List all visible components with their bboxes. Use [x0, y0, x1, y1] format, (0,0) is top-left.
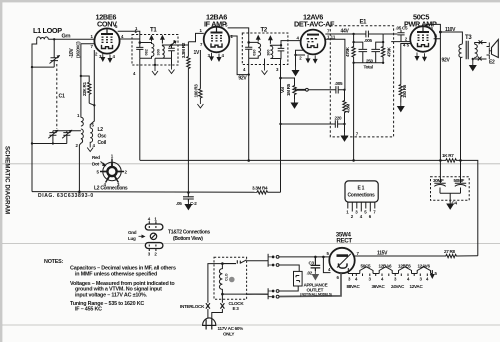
heater pin 3 12AV6	[306, 55, 310, 63]
svg-text:ONLY: ONLY	[223, 332, 234, 337]
svg-text:SCHEMATIC DIAGRAM: SCHEMATIC DIAGRAM	[4, 146, 11, 214]
node AVC at C2	[187, 191, 190, 194]
label E1	[360, 20, 368, 26]
pin 4p 50C5	[435, 34, 438, 39]
label T2 secondary value	[266, 49, 270, 55]
pin 5 12BA6	[225, 23, 228, 28]
node T2 primary top	[247, 41, 250, 44]
svg-text:E2: E2	[489, 60, 495, 66]
resistor 4.8M	[343, 90, 346, 124]
label 1K R7	[442, 153, 454, 158]
pin 2 12BE6	[95, 52, 98, 57]
pin 4s 12BE6	[121, 34, 124, 39]
label appliance outlet	[300, 282, 332, 296]
label 27 R8	[444, 249, 456, 254]
heater pin 3 50C5	[415, 53, 419, 61]
resistor R1 22K	[81, 76, 91, 103]
connector L2 bottom view	[100, 159, 124, 183]
node L2 bottom on bus	[78, 191, 81, 194]
connector T1T2 bottom shell	[145, 243, 163, 252]
inductor T1 secondary	[155, 45, 172, 58]
label C4	[452, 201, 458, 206]
pin 4 12AV6	[297, 36, 300, 41]
label 1M R5	[286, 83, 291, 96]
svg-text:92V: 92V	[238, 75, 247, 81]
slug arrow T1 secondary	[161, 36, 164, 44]
wire line cord left	[208, 264, 223, 319]
connector T1T2 bottom pin labels	[148, 252, 158, 257]
capacitor C4a 30MF	[433, 160, 446, 193]
pin 7 50C5	[431, 27, 434, 32]
resistor R6 150	[399, 85, 402, 103]
svg-text:470K: 470K	[345, 46, 350, 57]
wire T2 secondary to 12AV6 diode	[281, 41, 301, 46]
connector T1T2 top pin labels	[148, 217, 158, 222]
wire T2 pin to B+ bus	[248, 58, 250, 160]
connector L2 pin numbers	[97, 154, 128, 188]
pin 2 12BA6	[231, 34, 234, 39]
heater jumper 12BE6	[399, 267, 412, 274]
node AVC 220 tap	[279, 123, 281, 125]
svg-text:( NOT IN ALL MODELS): ( NOT IN ALL MODELS)	[300, 293, 332, 297]
gnd lug arrow	[139, 235, 146, 239]
connector T1T2 top shell	[145, 221, 163, 230]
pin 4 L2	[93, 143, 96, 148]
node AF grid	[343, 89, 345, 91]
faint crease line upper	[2, 163, 500, 165]
label .05 C-2	[176, 201, 197, 206]
svg-text:T1&T2 Connections: T1&T2 Connections	[168, 230, 210, 236]
heater chain end arrow	[431, 270, 435, 278]
label Gnd Lug	[128, 230, 137, 241]
node T3 secondary ground	[472, 58, 474, 60]
wire 44V to 50C5 grid	[383, 33, 397, 35]
wire AVC bus	[32, 191, 256, 194]
label L2 Connections	[94, 186, 128, 192]
label Vol	[280, 87, 285, 93]
pin 1 12AV6	[327, 35, 336, 40]
label L2 Osc Coil	[98, 127, 107, 146]
transformer T2 label	[261, 28, 268, 34]
ground L2 feedback	[87, 143, 93, 152]
slug arrow T2 secondary	[269, 36, 272, 44]
capacitor T1 primary padder	[136, 47, 143, 58]
wire loop top to grid	[48, 38, 95, 40]
connector E1 plug body	[345, 181, 378, 202]
heater chain labels top	[361, 263, 431, 268]
label 4.8M	[346, 104, 351, 113]
pin 2 50C5	[405, 37, 408, 42]
heater pin 4 12BE6	[108, 55, 112, 63]
pin 2 L2	[76, 143, 79, 148]
pin 1 T1	[135, 29, 138, 34]
faint crease line middle	[2, 243, 500, 245]
svg-text:E 1: E 1	[358, 186, 365, 192]
label .005 coupling	[335, 81, 343, 86]
transformer T1 shield box	[132, 35, 178, 66]
wire T1 secondary to 12BA6 grid	[172, 33, 204, 45]
antenna L1 loop label	[33, 26, 62, 35]
wire R1 bottom join	[89, 103, 94, 105]
pin 1 T1 top	[135, 26, 138, 31]
heater chain baseline	[348, 268, 432, 274]
label Red Dot	[92, 155, 100, 167]
svg-text:4.8M: 4.8M	[346, 104, 351, 113]
svg-text:CLO: CLO	[225, 273, 229, 281]
heater chain pin ticks	[353, 274, 428, 277]
label 3.3M R4	[252, 185, 268, 190]
label .05 C5	[396, 26, 408, 31]
connector E1 pin numbers	[346, 210, 376, 220]
plug 117V	[203, 318, 216, 330]
tube 12BA6 internals	[211, 27, 223, 47]
appliance outlet socket	[294, 271, 303, 286]
svg-text:NOTES:: NOTES:	[44, 259, 64, 265]
node 92V screen	[248, 73, 250, 75]
tube 12AV6 labels	[294, 13, 335, 29]
node 4.8M bottom	[343, 123, 345, 125]
pin 1 12BE6	[91, 34, 94, 39]
capacitor C1 oscillator trimmer	[62, 130, 72, 144]
heater pin 4 50C5	[423, 53, 427, 61]
label 110V	[445, 27, 456, 33]
wire pin4 jog	[323, 257, 330, 273]
ground 4.8M	[341, 124, 347, 141]
svg-text:.005: .005	[364, 38, 372, 43]
tube 12AV6 envelope	[301, 30, 326, 55]
node T1 primary top	[139, 41, 142, 44]
side caption SCHEMATIC DIAGRAM	[4, 146, 11, 214]
wire 50C5 cathode to R6	[401, 44, 411, 85]
pin 5 35W4	[327, 251, 330, 256]
svg-text:12BE6: 12BE6	[398, 263, 411, 268]
node R7 right	[459, 159, 462, 162]
resistor 470K left	[352, 34, 355, 63]
wire L2 tank bottom to AVC bus	[79, 143, 81, 192]
wire osc gang top	[53, 130, 81, 132]
svg-text:115V: 115V	[377, 250, 388, 256]
wire E1 to B+ bus	[353, 63, 355, 161]
svg-text:Lug: Lug	[128, 236, 136, 241]
pin 7 12BE6	[91, 44, 94, 49]
svg-text:T1: T1	[150, 28, 157, 34]
heater jumper 12BA6	[379, 267, 392, 274]
svg-text:92V: 92V	[442, 58, 451, 64]
svg-text:L1 LOOP: L1 LOOP	[33, 26, 62, 35]
capacitor C1 oscillator section	[48, 130, 58, 144]
svg-text:Red: Red	[92, 155, 100, 160]
heater pin labels 12BA6	[208, 53, 225, 58]
tube 12BA6 envelope	[204, 27, 230, 53]
svg-text:(Bottom View): (Bottom View)	[173, 236, 203, 242]
label -10V (1620KC)	[69, 41, 81, 58]
pin 4 35W4	[328, 267, 331, 272]
svg-text:Osc: Osc	[98, 134, 107, 140]
inductor T2 secondary	[270, 45, 281, 58]
wire AF grid line	[325, 39, 345, 90]
label .02	[307, 271, 313, 276]
connector E1 text	[348, 186, 375, 199]
svg-text:Total: Total	[364, 65, 373, 70]
label T1 primary value	[145, 49, 149, 55]
wire 50C5 plate to T3	[427, 24, 463, 43]
capacitor .005 plate bypass	[354, 31, 384, 38]
svg-text:12BA6: 12BA6	[379, 263, 393, 268]
node B+ T2 drop	[247, 159, 250, 162]
label C3	[309, 261, 315, 266]
node detector load top	[279, 77, 282, 80]
heater chain pin numbers	[348, 271, 438, 282]
svg-text:150 R6: 150 R6	[402, 84, 407, 98]
resistor R2 3.3M	[187, 57, 190, 70]
svg-text:12VAC: 12VAC	[410, 284, 424, 289]
pin 3 T2	[276, 67, 279, 72]
tube 50C5 envelope	[410, 26, 436, 52]
resistor R7 1K	[445, 159, 457, 162]
svg-text:E1: E1	[360, 20, 368, 26]
svg-text:88VAC: 88VAC	[347, 284, 361, 289]
ground T1 secondary return	[169, 58, 175, 73]
wire clock box exits	[222, 261, 268, 294]
diagram number caption	[38, 193, 94, 199]
node osc gang bottom left	[31, 142, 33, 144]
NOTES text block	[44, 259, 176, 313]
svg-text:input voltage – 117V AC ±10%.: input voltage – 117V AC ±10%.	[75, 292, 148, 298]
node E1 left branch	[352, 41, 354, 43]
pin 5 12BE6	[115, 24, 118, 29]
page edge strip top	[0, 0, 500, 2]
svg-text:.005: .005	[335, 81, 343, 86]
node T1 bottom	[154, 64, 156, 66]
transformer T3 primary	[459, 44, 463, 161]
wire 35W4 cathode 115V	[355, 255, 445, 257]
svg-text:T3: T3	[465, 35, 472, 41]
inductor T1 primary	[140, 43, 154, 59]
pin 45 50C5	[403, 43, 410, 48]
heater pin 3 12BE6	[101, 54, 105, 62]
svg-text:C3: C3	[309, 261, 315, 266]
capacitor 250 left	[354, 42, 368, 63]
capacitor C5 .05 grid	[391, 30, 410, 42]
wire 12BA6 screen to 92V	[230, 36, 249, 75]
wire 12BE6 plate to T1	[118, 31, 140, 42]
connector E1 dashed box	[330, 26, 393, 137]
label Grn	[62, 34, 71, 40]
ground R6	[398, 103, 404, 112]
label 92V	[442, 58, 451, 64]
pin 5 L2	[92, 123, 95, 128]
label 1V	[194, 50, 200, 56]
svg-text:300: 300	[156, 49, 160, 55]
antenna L1 loop coil	[37, 37, 49, 41]
wire osc grid line	[81, 44, 95, 118]
wire osc gang bottom	[32, 143, 67, 145]
svg-text:100 R3: 100 R3	[194, 84, 199, 98]
svg-text:30MF: 30MF	[433, 178, 444, 183]
heater pin 3 12BA6	[210, 53, 214, 61]
heater chain voltage labels	[347, 284, 424, 289]
label E2	[489, 60, 495, 66]
resistor 470K right	[381, 34, 384, 63]
label 470K left	[345, 46, 350, 57]
label C1	[59, 94, 65, 100]
svg-text:(1620KC): (1620KC)	[76, 41, 81, 58]
heater jumper 12AV6	[417, 267, 430, 274]
speaker E2	[487, 40, 499, 60]
ground R5	[291, 96, 297, 109]
red dot arrow	[101, 162, 107, 167]
label CLOCK E3	[229, 301, 245, 311]
ganged tuning link C1 dashed	[56, 64, 58, 129]
svg-text:Connections: Connections	[348, 193, 375, 199]
wire 220 line	[281, 123, 334, 125]
transformer T3 label	[465, 35, 472, 41]
node pin4 tap	[322, 256, 325, 259]
wire T3 secondary bottom to speaker	[475, 57, 487, 61]
node 110V	[439, 31, 442, 34]
svg-text:.05 C5: .05 C5	[396, 26, 408, 31]
wire 50C5 screen to filter	[434, 32, 441, 160]
capacitor C4b 50MF	[454, 160, 467, 193]
inductor T2 primary	[249, 42, 261, 58]
label .005 plate	[364, 38, 372, 43]
wire T2 secondary bottom to detector load	[280, 59, 283, 79]
wire E1 bottom rail	[354, 62, 384, 64]
clock motor coil	[219, 264, 222, 294]
filter C4 dashed box	[431, 177, 470, 201]
connector E1 pins	[348, 202, 375, 211]
svg-text:1V: 1V	[194, 50, 200, 56]
pin 2 12AV6	[299, 56, 302, 61]
wire 35W4 heater return thick	[279, 273, 341, 296]
node 44V	[352, 33, 354, 35]
ground C3	[312, 271, 320, 281]
svg-text:L2 Connections: L2 Connections	[94, 186, 128, 192]
pin 3 T1	[173, 39, 176, 44]
svg-text:22K R1: 22K R1	[82, 81, 87, 96]
svg-text:L2: L2	[98, 127, 104, 133]
svg-text:Dot: Dot	[92, 162, 100, 167]
svg-text:Grn: Grn	[62, 34, 71, 40]
switch S1a on-off	[268, 254, 279, 267]
svg-text:DIAG. 63C633893-0: DIAG. 63C633893-0	[38, 193, 94, 199]
resistor R8 27	[445, 254, 478, 257]
tube 35W4 envelope	[329, 248, 354, 273]
ground R3	[197, 99, 203, 108]
svg-text:E 3: E 3	[233, 306, 240, 311]
label 100 R3	[194, 84, 199, 98]
wire cathode feedback	[90, 50, 94, 128]
label 115V	[377, 250, 388, 256]
wire 12BA6 plate to T2	[228, 28, 249, 43]
clock E3 dashed box	[214, 257, 247, 299]
svg-text:44V: 44V	[341, 28, 350, 34]
label 44V	[341, 28, 350, 34]
svg-text:27 R8: 27 R8	[444, 249, 456, 254]
interlock X right	[220, 303, 224, 308]
svg-text:C-2: C-2	[190, 201, 197, 206]
wire loop left lead	[32, 41, 37, 191]
tube 12BE6 internals	[101, 29, 113, 49]
clock motor label	[225, 273, 229, 281]
trimmer arrow T1	[169, 41, 176, 47]
transformer T1 label	[150, 28, 157, 34]
label 150 R6	[402, 84, 407, 98]
svg-text:RECT: RECT	[336, 237, 352, 244]
tube 12AV6 internals	[307, 34, 320, 48]
node osc gang mid	[52, 142, 54, 144]
svg-text:300: 300	[266, 49, 270, 55]
wire 12BE6 screen stub	[119, 38, 140, 40]
transformer T3 secondary	[475, 44, 478, 57]
pin 4 T1	[133, 71, 136, 76]
tube 50C5 labels	[404, 13, 437, 29]
pin 1 L2	[77, 113, 80, 118]
capacitor T2 secondary	[278, 45, 285, 58]
wire 12AV6 plate to 44V node	[325, 33, 353, 35]
transformer T2 shield box	[242, 33, 288, 65]
pin 7 12AV6	[327, 29, 330, 34]
pin 7 35W4	[357, 251, 360, 256]
svg-text:3.3M R2: 3.3M R2	[181, 42, 186, 58]
svg-text:220: 220	[335, 116, 343, 121]
label T2 primary value	[252, 49, 256, 55]
clock switch	[222, 260, 246, 264]
node E1 right branch	[382, 41, 384, 43]
node loop bottom	[31, 66, 33, 68]
heater pin labels 12BE6	[99, 54, 116, 59]
label 250 Total	[364, 59, 374, 70]
label 3.3M R2	[181, 42, 186, 58]
wire C4 common	[440, 193, 461, 202]
label T1 secondary value	[156, 49, 160, 55]
label 92V screen	[238, 75, 247, 81]
label INTERLOCK	[180, 304, 205, 309]
node clock coil top	[221, 262, 224, 265]
wire 12BA6 cathode to R3	[199, 50, 201, 89]
capacitor C1 antenna section	[50, 40, 61, 67]
connector T1T2 gnd lug	[150, 233, 156, 239]
wire line cord right	[212, 294, 223, 319]
svg-text:INTERLOCK: INTERLOCK	[180, 304, 205, 309]
heater jumper 50C5	[360, 267, 373, 274]
svg-text:.05: .05	[176, 201, 182, 206]
slug arrow T2 primary	[257, 36, 260, 42]
resistor R4 3.3M AVC	[256, 191, 281, 194]
node B+ E1 drop	[352, 159, 355, 162]
svg-text:1K R7: 1K R7	[442, 153, 454, 158]
label 220	[335, 116, 343, 121]
svg-text:in MMF unless otherwise specif: in MMF unless otherwise specified	[75, 272, 157, 278]
pin 7 12BA6	[200, 42, 203, 47]
slug arrow T1 primary	[150, 36, 153, 42]
heater pin 4h 12AV6	[313, 55, 317, 63]
tube 12BA6 labels	[204, 13, 227, 29]
node C3 tap	[314, 256, 317, 259]
inductor L2 oscillator tank winding	[81, 117, 83, 143]
svg-text:-10V: -10V	[69, 48, 75, 58]
transformer T3 core	[466, 41, 468, 59]
tube 12BE6 converter labels	[96, 13, 118, 29]
interlock X left	[206, 303, 210, 308]
resistor R3 100	[199, 89, 202, 99]
label 117V AC 60 ONLY	[218, 326, 244, 337]
ground T1 center	[152, 58, 158, 75]
wire T1 pin4 to B+ bus	[139, 58, 141, 160]
tube 35W4 internals	[337, 254, 351, 268]
svg-text:24VAC: 24VAC	[391, 284, 405, 289]
svg-text:117V AC 60%: 117V AC 60%	[218, 326, 244, 331]
